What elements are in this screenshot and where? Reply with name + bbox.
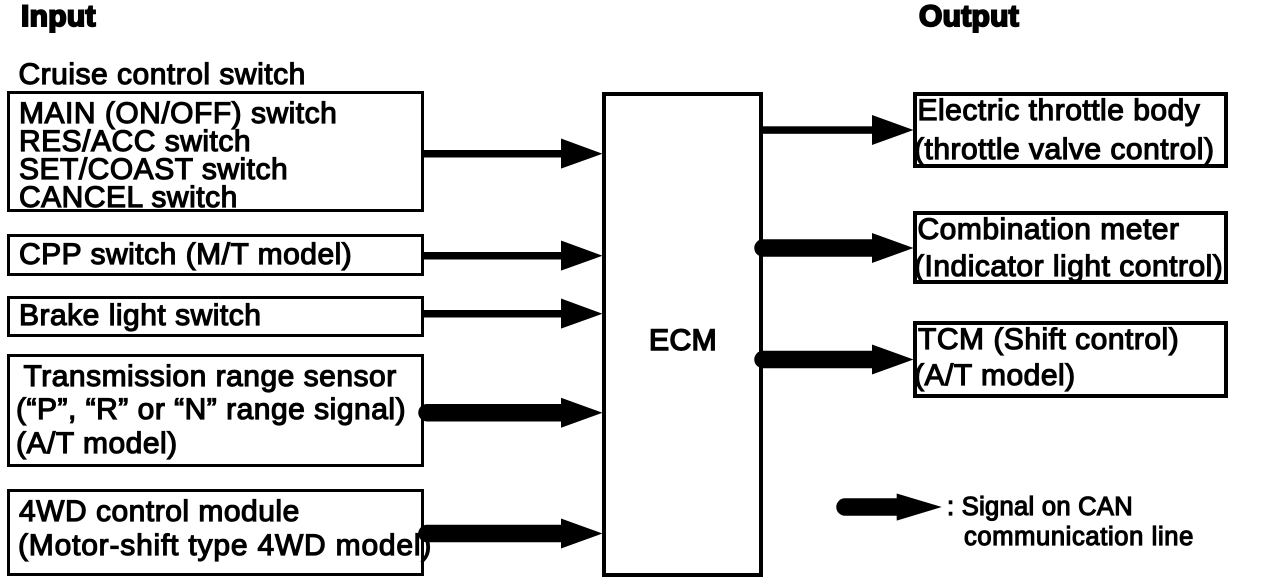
box TCM xyxy=(913,321,1228,398)
text transmission range sensor line2 xyxy=(16,395,406,425)
text brake light switch xyxy=(19,301,261,331)
text ECM xyxy=(649,326,717,356)
text combination meter line2 xyxy=(914,252,1223,282)
label Input header xyxy=(21,2,96,32)
box CPP switch xyxy=(7,234,424,276)
legend text line2 xyxy=(964,524,1194,550)
box combination meter xyxy=(913,211,1228,284)
box 4WD control module xyxy=(7,489,424,576)
text combination meter line1 xyxy=(918,215,1180,245)
text TCM line1 xyxy=(918,325,1179,355)
text 4WD line2 xyxy=(18,531,432,561)
text transmission range sensor line3 xyxy=(16,429,178,459)
box electric throttle body xyxy=(913,92,1228,168)
label Cruise control switch xyxy=(19,60,306,90)
label Output header xyxy=(919,2,1019,32)
text MAIN/RES/SET/CANCEL xyxy=(19,100,337,212)
text 4WD line1 xyxy=(19,497,300,527)
text TCM line2 xyxy=(914,361,1076,391)
box cruise control switches xyxy=(7,91,424,212)
legend text line1 xyxy=(947,494,1133,520)
text electric throttle body line2 xyxy=(914,135,1214,165)
box transmission range sensor xyxy=(7,354,424,467)
text electric throttle body line1 xyxy=(918,96,1201,126)
text transmission range sensor line1 xyxy=(24,362,397,392)
text CPP switch xyxy=(19,240,352,270)
box brake light switch xyxy=(7,296,424,337)
box ECM xyxy=(602,92,763,577)
